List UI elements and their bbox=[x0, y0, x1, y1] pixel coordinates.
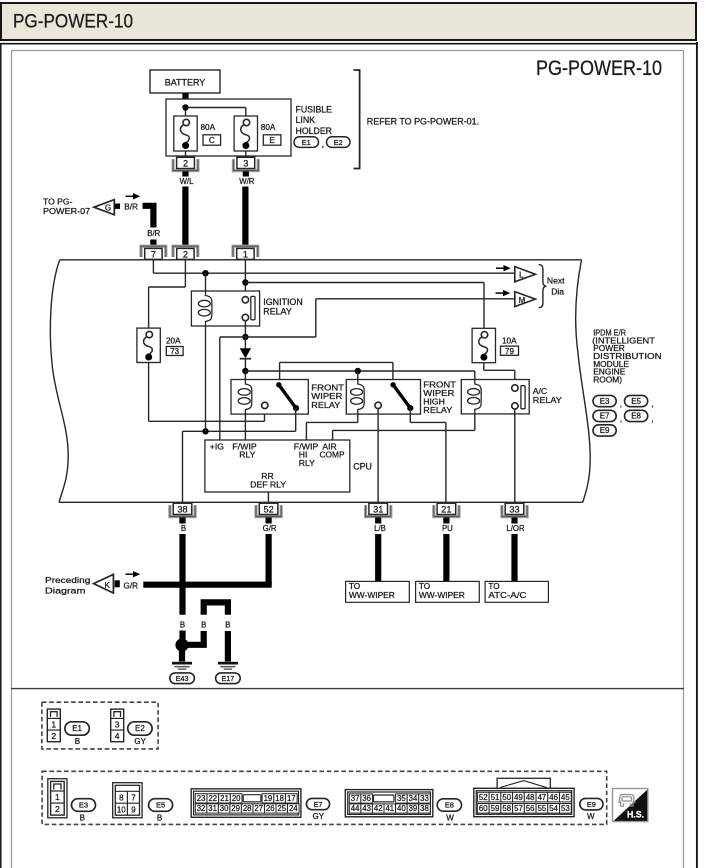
svg-text:HOLDER: HOLDER bbox=[296, 126, 333, 136]
svg-text:W/L: W/L bbox=[180, 177, 195, 186]
svg-text:33: 33 bbox=[420, 794, 429, 803]
svg-text:TO: TO bbox=[349, 582, 360, 591]
svg-text:B: B bbox=[80, 814, 85, 823]
svg-text:FUSIBLE: FUSIBLE bbox=[296, 105, 333, 115]
svg-text:46: 46 bbox=[549, 793, 558, 802]
svg-text:PU: PU bbox=[442, 524, 453, 533]
svg-text:B: B bbox=[201, 621, 206, 630]
svg-text:25: 25 bbox=[277, 804, 286, 813]
svg-text:79: 79 bbox=[505, 347, 514, 356]
svg-text:C: C bbox=[209, 136, 215, 145]
svg-text:2: 2 bbox=[183, 159, 188, 169]
svg-text:2: 2 bbox=[55, 804, 60, 814]
svg-text:REFER TO PG-POWER-01.: REFER TO PG-POWER-01. bbox=[367, 117, 479, 127]
svg-text:1: 1 bbox=[55, 792, 60, 802]
svg-text:E7: E7 bbox=[313, 800, 322, 809]
svg-text:44: 44 bbox=[351, 804, 360, 813]
svg-text:E: E bbox=[269, 136, 275, 145]
svg-text:18: 18 bbox=[275, 794, 284, 803]
svg-text:3: 3 bbox=[115, 719, 120, 729]
svg-text:G/R: G/R bbox=[263, 524, 277, 533]
svg-text:B: B bbox=[157, 814, 162, 823]
svg-text:W/R: W/R bbox=[239, 177, 255, 186]
svg-text:B: B bbox=[75, 737, 80, 746]
svg-text:19: 19 bbox=[264, 794, 273, 803]
svg-text:B/R: B/R bbox=[124, 202, 138, 211]
svg-text:RELAY: RELAY bbox=[533, 395, 562, 405]
svg-text:3: 3 bbox=[243, 159, 248, 169]
svg-text:22: 22 bbox=[208, 794, 217, 803]
svg-text:1: 1 bbox=[243, 250, 248, 260]
svg-text:B: B bbox=[225, 621, 230, 630]
svg-text:55: 55 bbox=[538, 804, 547, 813]
svg-text:TO: TO bbox=[488, 582, 499, 591]
svg-text:G/R: G/R bbox=[124, 581, 139, 590]
svg-text:36: 36 bbox=[362, 794, 371, 803]
svg-text:10A: 10A bbox=[502, 337, 517, 346]
svg-text:34: 34 bbox=[409, 794, 418, 803]
svg-text:80A: 80A bbox=[261, 123, 276, 132]
svg-text:K: K bbox=[105, 581, 111, 590]
svg-text:2: 2 bbox=[183, 250, 188, 260]
svg-text:23: 23 bbox=[197, 794, 206, 803]
svg-text:54: 54 bbox=[549, 804, 558, 813]
svg-text:51: 51 bbox=[491, 793, 500, 802]
svg-text:43: 43 bbox=[362, 804, 371, 813]
svg-text:E3: E3 bbox=[600, 397, 610, 406]
svg-text:L/OR: L/OR bbox=[506, 524, 525, 533]
svg-text:29: 29 bbox=[231, 804, 240, 813]
svg-text:8: 8 bbox=[119, 794, 124, 803]
svg-text:LINK: LINK bbox=[296, 115, 316, 125]
svg-text:32: 32 bbox=[197, 804, 206, 813]
svg-text:31: 31 bbox=[373, 505, 383, 515]
svg-text:,: , bbox=[651, 413, 653, 423]
svg-text:E9: E9 bbox=[587, 800, 596, 809]
svg-text:33: 33 bbox=[509, 505, 519, 515]
svg-text:B/R: B/R bbox=[147, 229, 160, 238]
svg-text:COMP: COMP bbox=[320, 450, 345, 460]
svg-text:,: , bbox=[620, 413, 622, 423]
svg-text:L: L bbox=[519, 271, 524, 280]
svg-text:RLY: RLY bbox=[239, 450, 255, 460]
svg-text:M: M bbox=[519, 296, 526, 305]
svg-text:RELAY: RELAY bbox=[311, 400, 340, 410]
svg-text:52: 52 bbox=[263, 505, 273, 515]
svg-text:48: 48 bbox=[526, 793, 535, 802]
svg-text:RLY: RLY bbox=[299, 458, 315, 468]
svg-text:2: 2 bbox=[51, 731, 56, 741]
svg-text:ATC-A/C: ATC-A/C bbox=[488, 591, 526, 600]
svg-text:80A: 80A bbox=[201, 123, 216, 132]
svg-text:31: 31 bbox=[208, 804, 217, 813]
svg-text:GY: GY bbox=[134, 737, 146, 746]
svg-text:56: 56 bbox=[526, 804, 535, 813]
svg-text:24: 24 bbox=[289, 804, 298, 813]
svg-text:E9: E9 bbox=[600, 426, 610, 435]
svg-text:ROOM): ROOM) bbox=[593, 374, 622, 384]
svg-text:DEF RLY: DEF RLY bbox=[250, 479, 286, 489]
svg-text:38: 38 bbox=[420, 804, 429, 813]
svg-text:41: 41 bbox=[385, 804, 394, 813]
svg-text:30: 30 bbox=[220, 804, 229, 813]
svg-text:37: 37 bbox=[351, 794, 360, 803]
svg-text:7: 7 bbox=[131, 794, 136, 803]
svg-text:Diagram: Diagram bbox=[45, 586, 85, 596]
svg-text:E2: E2 bbox=[334, 138, 343, 147]
svg-text:E5: E5 bbox=[631, 397, 641, 406]
svg-text:42: 42 bbox=[374, 804, 383, 813]
svg-text:B: B bbox=[181, 524, 186, 533]
svg-text:E7: E7 bbox=[600, 412, 610, 421]
svg-text:28: 28 bbox=[243, 804, 252, 813]
svg-text:+IG: +IG bbox=[210, 441, 224, 451]
svg-text:35: 35 bbox=[397, 794, 406, 803]
svg-text:10: 10 bbox=[117, 806, 126, 815]
svg-text:PG-POWER-10: PG-POWER-10 bbox=[13, 12, 133, 33]
svg-text:,: , bbox=[620, 398, 622, 408]
svg-text:17: 17 bbox=[287, 794, 296, 803]
svg-text:1: 1 bbox=[51, 719, 56, 729]
svg-text:26: 26 bbox=[266, 804, 275, 813]
svg-text:47: 47 bbox=[538, 793, 547, 802]
svg-text:POWER-07: POWER-07 bbox=[43, 206, 90, 216]
svg-text:50: 50 bbox=[502, 793, 511, 802]
svg-text:58: 58 bbox=[502, 804, 511, 813]
svg-text:52: 52 bbox=[479, 793, 488, 802]
svg-text:PG-POWER-10: PG-POWER-10 bbox=[536, 57, 662, 80]
svg-text:H.S.: H.S. bbox=[627, 809, 644, 819]
svg-text:RELAY: RELAY bbox=[263, 307, 292, 317]
svg-text:4: 4 bbox=[115, 731, 120, 741]
svg-text:57: 57 bbox=[514, 804, 523, 813]
svg-text:,: , bbox=[651, 398, 653, 408]
svg-text:E2: E2 bbox=[135, 724, 145, 733]
svg-text:E17: E17 bbox=[222, 674, 235, 683]
svg-text:E1: E1 bbox=[302, 138, 311, 147]
svg-text:BATTERY: BATTERY bbox=[165, 77, 206, 87]
svg-text:7: 7 bbox=[151, 250, 156, 260]
svg-text:,: , bbox=[322, 139, 324, 149]
svg-text:27: 27 bbox=[254, 804, 263, 813]
svg-text:59: 59 bbox=[491, 804, 500, 813]
svg-text:E5: E5 bbox=[156, 801, 165, 810]
svg-text:49: 49 bbox=[514, 793, 523, 802]
svg-text:73: 73 bbox=[170, 347, 179, 356]
svg-text:L/B: L/B bbox=[374, 524, 386, 533]
svg-text:21: 21 bbox=[441, 505, 451, 515]
svg-text:20: 20 bbox=[232, 794, 241, 803]
svg-text:E3: E3 bbox=[79, 801, 88, 810]
svg-text:E8: E8 bbox=[445, 801, 454, 810]
svg-text:45: 45 bbox=[561, 793, 570, 802]
svg-text:W: W bbox=[446, 813, 454, 822]
svg-text:21: 21 bbox=[220, 794, 229, 803]
svg-text:GY: GY bbox=[313, 812, 325, 821]
svg-text:Next: Next bbox=[547, 275, 565, 285]
svg-text:60: 60 bbox=[479, 804, 488, 813]
svg-text:RELAY: RELAY bbox=[423, 405, 452, 415]
svg-text:40: 40 bbox=[397, 804, 406, 813]
svg-text:53: 53 bbox=[561, 804, 570, 813]
svg-text:TO: TO bbox=[419, 582, 430, 591]
svg-text:Dia: Dia bbox=[551, 286, 564, 296]
svg-text:39: 39 bbox=[409, 804, 418, 813]
svg-text:B: B bbox=[180, 621, 185, 630]
svg-text:E43: E43 bbox=[176, 674, 189, 683]
svg-text:W: W bbox=[587, 812, 595, 821]
svg-text:9: 9 bbox=[131, 806, 136, 815]
svg-text:WW-WIPER: WW-WIPER bbox=[419, 591, 465, 600]
svg-text:20A: 20A bbox=[166, 337, 181, 346]
svg-text:G: G bbox=[105, 203, 111, 212]
svg-text:E1: E1 bbox=[72, 724, 82, 733]
svg-text:WW-WIPER: WW-WIPER bbox=[349, 591, 395, 600]
svg-text:38: 38 bbox=[177, 505, 187, 515]
svg-text:E8: E8 bbox=[631, 412, 641, 421]
svg-text:CPU: CPU bbox=[353, 461, 372, 471]
svg-text:Preceding: Preceding bbox=[45, 575, 91, 585]
